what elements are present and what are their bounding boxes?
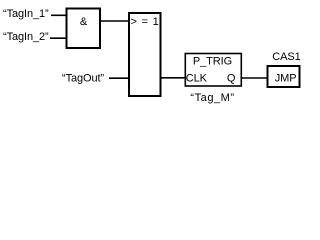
svg-text:&: &	[80, 16, 88, 28]
svg-text:CLK: CLK	[186, 73, 208, 85]
svg-text:JMP: JMP	[275, 73, 297, 85]
wire AND output to OR input 1	[100, 20, 129, 22]
wire TagIn_2 to AND input 2	[50, 37, 67, 39]
svg-text:“TagIn_2”: “TagIn_2”	[3, 31, 49, 43]
AND gate box U1	[67, 9, 101, 49]
OR gate box (>=1)	[129, 13, 161, 96]
svg-text:Q: Q	[227, 73, 236, 85]
svg-text:P_TRIG: P_TRIG	[193, 56, 232, 68]
svg-text:“TagIn_1”: “TagIn_1”	[3, 8, 49, 20]
wire P_TRIG Q to JMP	[242, 77, 268, 79]
P_TRIG block box	[185, 54, 241, 87]
JMP coil box	[268, 66, 300, 87]
svg-text:> = 1: > = 1	[131, 16, 160, 28]
wire OR output to P_TRIG CLK	[160, 77, 186, 79]
wire TagOut to OR input 2	[109, 77, 129, 79]
svg-text:“Tag_M”: “Tag_M”	[190, 92, 234, 104]
wire TagIn_1 to AND input 1	[51, 14, 67, 16]
svg-text:“TagOut”: “TagOut”	[62, 72, 104, 84]
svg-text:CAS1: CAS1	[272, 51, 300, 63]
